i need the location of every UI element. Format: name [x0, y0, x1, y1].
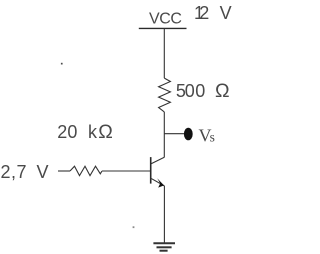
- wire emitter to ground: [163, 186, 165, 243]
- resistor 20 kohm (horizontal zigzag): [70, 166, 102, 175]
- transistor Q1 emitter lead: [151, 178, 165, 186]
- wire resistor 20k to base: [102, 170, 151, 172]
- svg-text:VCC: VCC: [149, 11, 182, 28]
- wire stub to output node: [164, 133, 185, 135]
- transistor Q1 emitter arrow: [157, 178, 164, 187]
- wire resistor bottom to collector: [163, 112, 165, 157]
- resistor 500 ohm (vertical zigzag): [159, 78, 171, 112]
- ground bar 1: [153, 242, 175, 244]
- power rail VCC bar: [139, 27, 187, 29]
- stray mark: [61, 63, 63, 65]
- wire VCC bar to resistor R-500 top: [163, 28, 165, 78]
- node dot Vs: [184, 128, 193, 141]
- svg-text:2,7 V: 2,7 V: [1, 162, 50, 182]
- svg-text:500Ω: 500Ω: [176, 80, 230, 102]
- transistor Q1 base bar: [150, 157, 152, 184]
- transistor Q1 collector lead: [151, 157, 164, 164]
- stray mark 2: [133, 226, 135, 228]
- ground bar 2: [157, 246, 172, 248]
- wire source to resistor 20k left stub: [58, 170, 70, 172]
- ground bar 3: [160, 250, 168, 252]
